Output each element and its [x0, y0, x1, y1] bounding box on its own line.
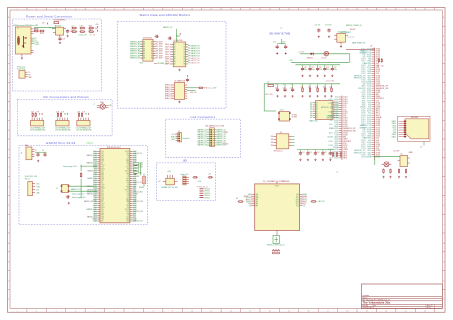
svg-text:IO14: IO14 [328, 149, 332, 151]
section box Led Connectors [166, 119, 241, 157]
svg-text:IO22: IO22 [126, 159, 129, 161]
svg-text:11: 11 [211, 9, 213, 11]
svg-text:SAME SPEED ON: SAME SPEED ON [352, 41, 366, 44]
svg-text:M: M [443, 243, 445, 245]
svg-text:VDD: VDD [101, 180, 104, 182]
svg-text:IO35: IO35 [361, 156, 365, 158]
ground below R26 [309, 95, 311, 97]
resistor R26 pull array [308, 84, 311, 93]
resistor R12 I2C pullup SDA [56, 111, 59, 117]
wire EN net vertical [81, 165, 82, 198]
section box Matrix Data and APA102 Buffers [118, 22, 227, 109]
svg-text:SDIO: SDIO [36, 186, 41, 188]
svg-text:IO32: IO32 [101, 157, 104, 159]
svg-text:(IO): (IO) [183, 160, 187, 163]
svg-text:VDD3P3: VDD3P3 [133, 176, 139, 178]
svg-text:1V8: 1V8 [36, 189, 39, 191]
IC U7 label [263, 180, 290, 184]
svg-text:IO12: IO12 [133, 207, 136, 209]
resistor R28 pull array [323, 84, 326, 93]
svg-text:VDD: VDD [101, 161, 104, 163]
svg-text:+ /LED: + /LED [212, 88, 218, 90]
wire 5V switch rail [298, 52, 350, 54]
svg-text:10: 10 [191, 311, 193, 313]
svg-text:B8: B8 [151, 58, 153, 60]
svg-text:IO14: IO14 [93, 161, 96, 163]
svg-text:JST-SH-SM04B-GND: JST-SH-SM04B-GND [55, 130, 71, 132]
I2C connector J4 [55, 118, 71, 132]
svg-text:CLK: CLK [126, 155, 129, 157]
svg-text:16: 16 [308, 9, 310, 11]
svg-text:MATRIX_R5: MATRIX_R5 [191, 54, 200, 57]
svg-text:D-: D- [35, 40, 37, 42]
svg-text:B6: B6 [184, 56, 186, 58]
svg-text:12: 12 [230, 311, 232, 313]
svg-text:IO35: IO35 [93, 195, 96, 197]
svg-text:GND2: GND2 [101, 207, 105, 209]
svg-text:100n: 100n [326, 69, 330, 71]
svg-text:4.7K: 4.7K [31, 111, 34, 113]
ground below R28 [324, 95, 326, 97]
svg-text:MATRIX_A7: MATRIX_A7 [130, 57, 140, 60]
svg-text:+3.3V_CONN: +3.3V_CONN [325, 80, 334, 82]
net label MATRIX_POWER_IN [346, 24, 362, 31]
svg-text:18: 18 [346, 311, 348, 313]
ground below R25 [301, 95, 303, 97]
svg-text:B9: B9 [184, 64, 186, 66]
power flag +3V3 at I2C connector J5 [85, 113, 89, 115]
resistor R6 pullup [71, 30, 77, 33]
ground below C24 [299, 159, 301, 161]
section title Matrix Data and APA102 Buffers [140, 13, 191, 17]
svg-text:C23: C23 [290, 87, 293, 89]
svg-text:F2: F2 [268, 82, 270, 84]
capacitor C10 buffer decoupling [155, 35, 159, 38]
svg-text:CLK: CLK [126, 213, 129, 215]
wire U7 bottom to antenna [276, 230, 278, 235]
svg-text:IN3: IN3 [271, 145, 274, 147]
svg-text:B2: B2 [151, 44, 153, 46]
buffer U5 APA102 level shifter [165, 80, 187, 100]
LED D6 activity [382, 162, 392, 167]
svg-text:D? LED: D? LED [223, 144, 229, 146]
svg-text:IO9: IO9 [94, 203, 97, 205]
svg-text:OSC1: OSC1 [280, 110, 284, 112]
svg-text:IO22: IO22 [126, 217, 129, 219]
svg-text:R1 22: R1 22 [34, 28, 38, 30]
wire 3V3 rail upper [289, 60, 350, 63]
svg-text:VDD: VDD [296, 194, 299, 196]
crystal X1 40MHz [56, 185, 81, 193]
svg-text:APA_DAT: APA_DAT [190, 91, 197, 94]
svg-text:14: 14 [269, 311, 271, 313]
net label stubs right of ESP32 [134, 163, 141, 176]
ground below C2 [67, 35, 69, 37]
svg-text:+5V: +5V [42, 22, 46, 24]
svg-text:IO32: IO32 [101, 215, 104, 217]
svg-text:IO4: IO4 [133, 217, 136, 219]
section box ESP32 Pico V3-02 [19, 146, 147, 225]
svg-text:GPIO2: GPIO2 [125, 209, 129, 211]
resistor R5 pullup [88, 25, 94, 29]
svg-text:SHLD: SHLD [35, 44, 40, 46]
resistor R20 EN pullup [80, 172, 82, 178]
svg-text:SENSOR_VN: SENSOR_VN [321, 107, 333, 109]
svg-text:GPIO36: GPIO36 [204, 195, 210, 197]
resistor R27 pull array [315, 84, 318, 93]
svg-text:IO0: IO0 [133, 215, 136, 217]
svg-text:Leyenda: Leyenda [363, 295, 370, 297]
resistor R1 series USB [33, 28, 39, 31]
svg-text:IO25: IO25 [93, 151, 96, 153]
svg-text:ESP32 Pico V3-02: ESP32 Pico V3-02 [46, 141, 75, 145]
ground below R38 [405, 176, 407, 178]
capacitor C16 [301, 67, 307, 71]
ground below C22 [284, 95, 286, 97]
svg-text:SD2: SD2 [329, 132, 333, 134]
capacitor C8 at ESP32 right [134, 164, 137, 168]
svg-text:DAT1: DAT1 [392, 135, 396, 138]
svg-text:IO25: IO25 [101, 190, 104, 192]
svg-text:GND2: GND2 [101, 168, 105, 170]
svg-text:7: 7 [133, 311, 134, 313]
resistor R15 I2C pullup SCL [81, 111, 85, 117]
svg-text:Same image 0.3m: Same image 0.3m [72, 193, 85, 195]
svg-text:IN0: IN0 [271, 136, 274, 138]
svg-text:GND: GND [101, 213, 104, 215]
svg-text:IO27: IO27 [101, 192, 104, 194]
svg-text:IO23: IO23 [93, 188, 96, 190]
section title ESP32 Pico V3-02 [46, 141, 93, 145]
svg-text:IO32: IO32 [133, 199, 136, 201]
svg-text:B4: B4 [184, 51, 186, 53]
svg-text:IO19: IO19 [133, 157, 136, 159]
svg-text:Led Connectors: Led Connectors [191, 115, 216, 119]
wire +5V to U4 [163, 26, 180, 42]
svg-text:AP2112K: AP2112K [55, 24, 61, 27]
section box Power and Serial Conversion [13, 19, 102, 91]
svg-text:PICO_PHY: PICO_PHY [265, 94, 273, 96]
svg-text:MATRIX_POWER_IN: MATRIX_POWER_IN [346, 24, 362, 27]
svg-text:20: 20 [385, 9, 387, 11]
section box IO [156, 163, 215, 201]
svg-text:A7: A7 [310, 116, 312, 119]
svg-text:F1 MF-MSMF050: F1 MF-MSMF050 [54, 20, 66, 22]
resistor R8 pullup [88, 30, 94, 33]
resistor R7 pullup [79, 30, 85, 33]
svg-text:C27: C27 [324, 152, 327, 154]
svg-text:IO25: IO25 [101, 209, 104, 211]
svg-text:9: 9 [172, 9, 173, 11]
svg-text:L: L [443, 224, 444, 226]
svg-text:B8: B8 [184, 61, 186, 63]
svg-text:MATRIX_5V: MATRIX_5V [163, 26, 173, 29]
svg-text:TX: TX [28, 72, 30, 74]
svg-text:B5: B5 [151, 51, 153, 53]
svg-text:J: J [8, 186, 9, 188]
svg-text:??: ?? [280, 28, 283, 30]
svg-text:32.768k: 32.768k [292, 117, 298, 119]
USB connector J1 [13, 24, 40, 57]
svg-text:GND: GND [140, 62, 144, 64]
power flag +3V3 at I2C connector J4 [64, 113, 68, 115]
svg-text:SD3: SD3 [126, 201, 129, 203]
net labels MATRIX_R1 group right of U4 [188, 44, 200, 57]
svg-text:PC0: PC0 [296, 196, 299, 198]
svg-text:VP: VP [127, 157, 129, 159]
svg-text:C17: C17 [311, 67, 314, 69]
section title I2C Connections and Pullups [43, 95, 89, 99]
svg-text:4.7K: 4.7K [61, 111, 64, 113]
svg-text:CLK: CLK [126, 194, 129, 196]
svg-text:VN: VN [127, 165, 129, 167]
svg-text:B1: B1 [184, 44, 186, 46]
svg-text:+3.3V: +3.3V [289, 60, 293, 62]
ground below C26 [314, 159, 316, 161]
svg-text:GPIO37: GPIO37 [204, 197, 210, 199]
ground below C23 [292, 95, 294, 97]
power flag +5 floating [336, 172, 338, 174]
svg-text:J12: J12 [370, 46, 373, 48]
svg-text:SD1: SD1 [126, 153, 129, 155]
connector J8 APA102 strip [171, 131, 189, 142]
ground below crystal [68, 202, 70, 204]
svg-text:I: I [443, 168, 444, 170]
svg-text:IO2: IO2 [330, 158, 333, 160]
svg-text:C26: C26 [317, 152, 320, 154]
svg-text:10K: 10K [300, 87, 303, 89]
svg-text:B4: B4 [151, 48, 153, 50]
svg-text:SD2: SD2 [133, 190, 136, 192]
resistor R3 pullup [71, 26, 77, 29]
wire SD aux rail [374, 156, 400, 165]
wire +5V bus from USB to regulator [34, 27, 56, 28]
svg-text:IO17: IO17 [93, 176, 96, 178]
svg-text:5V_TOLERANT_IO_EXPANDER: 5V_TOLERANT_IO_EXPANDER [263, 180, 290, 183]
svg-text:SD3: SD3 [126, 221, 129, 223]
svg-text:EN: EN [127, 188, 129, 190]
capacitor C5 decoupling [35, 150, 40, 157]
transistor Q1 [398, 154, 411, 167]
svg-text:IO22: IO22 [376, 156, 381, 158]
svg-text:SENSOR_VN: SENSOR_VN [87, 192, 97, 194]
svg-text:B2: B2 [184, 47, 186, 49]
svg-text:21: 21 [405, 9, 407, 11]
svg-text:IO35: IO35 [328, 111, 332, 113]
I2C connector J5 [76, 118, 92, 132]
svg-text:J: J [443, 186, 444, 188]
resistor R37 [398, 168, 399, 173]
svg-text:10K: 10K [329, 87, 332, 89]
svg-text:10K: 10K [308, 87, 311, 89]
svg-text:GPIO33: GPIO33 [204, 189, 210, 191]
svg-text:CMD: CMD [126, 199, 129, 201]
svg-text:10K: 10K [377, 65, 379, 67]
capacitor C13 bulk [282, 42, 287, 49]
comment text SD WHY IS THIS [269, 28, 290, 36]
svg-text:4.7K: 4.7K [77, 111, 80, 113]
svg-text:IO32: IO32 [101, 195, 104, 197]
svg-text:GPIO2: GPIO2 [125, 151, 129, 153]
svg-text:IO27: IO27 [334, 158, 338, 160]
svg-text:IO9: IO9 [330, 120, 333, 122]
resistor R36 [390, 168, 391, 173]
LED D1 power indicator [93, 102, 112, 109]
connector J6 debug header [21, 144, 35, 160]
svg-text:+5V_M: +5V_M [171, 134, 177, 136]
svg-text:IO19: IO19 [101, 205, 104, 207]
svg-text:15: 15 [288, 311, 290, 313]
resistor row R32-R34 below connector A [332, 152, 342, 157]
svg-text:VN: VN [127, 184, 129, 186]
svg-text:SWC: SWC [296, 201, 299, 203]
svg-text:SD1: SD1 [133, 188, 136, 190]
svg-text:Strip/Dots: Strip/Dots [183, 137, 190, 140]
resistor R11 I2C pullup SCL [35, 111, 39, 117]
svg-text:C22: C22 [283, 87, 286, 89]
svg-text:IO9: IO9 [133, 178, 136, 180]
svg-text:5: 5 [94, 311, 95, 313]
svg-text:BUF_8: BUF_8 [165, 64, 171, 66]
svg-text:PC4: PC4 [296, 203, 299, 205]
svg-text:VDD3 SDIO 1.8V: VDD3 SDIO 1.8V [25, 176, 38, 178]
svg-text:I2C-STEMMA-QT-4P: I2C-STEMMA-QT-4P [30, 126, 45, 129]
svg-text:+3.3: +3.3 [208, 174, 211, 176]
svg-text:C21: C21 [275, 87, 278, 89]
power flag +3V3 row1 [95, 24, 99, 28]
svg-text:IO23: IO23 [328, 103, 332, 105]
svg-text:VIN: VIN [109, 105, 112, 107]
svg-text:+Pull: +Pull [198, 181, 202, 183]
svg-text:IO19: IO19 [93, 182, 96, 184]
svg-text:CARD: CARD [409, 151, 414, 154]
connector J7 SDIO header [25, 176, 41, 195]
svg-text:IO10: IO10 [93, 205, 96, 207]
svg-text:+5V_SW: +5V_SW [298, 52, 305, 54]
svg-text:SEL J7: SEL J7 [25, 178, 30, 180]
svg-text:SD3: SD3 [343, 158, 348, 160]
svg-text:IN1: IN1 [271, 139, 274, 141]
svg-text:I2C Connections and Pullups: I2C Connections and Pullups [43, 95, 89, 99]
resistor R35 [383, 168, 384, 173]
svg-text:IO26: IO26 [328, 141, 332, 143]
svg-text:C12: C12 [273, 42, 276, 44]
svg-text:IO19: IO19 [101, 186, 104, 188]
svg-text:18: 18 [346, 9, 348, 11]
svg-text:IO19: IO19 [101, 166, 104, 168]
label pullup cluster [377, 65, 383, 67]
svg-text:IO21: IO21 [126, 186, 129, 188]
svg-text:13: 13 [249, 9, 251, 11]
wire crystal to ESP32 XTAL pins [69, 186, 98, 195]
svg-text:C15 10uF: C15 10uF [325, 24, 332, 26]
ground below C14 C15 [318, 35, 330, 37]
svg-text:+ANT_FB: +ANT_FB [318, 200, 325, 203]
fuse F1 [54, 20, 66, 24]
svg-text:SiT1532: SiT1532 [292, 115, 298, 117]
level shifter U10 74AHCT245 [309, 101, 339, 123]
capacitor C25 [306, 151, 312, 155]
svg-text:1: 1 [17, 311, 18, 313]
svg-text:C14 1uF: C14 1uF [315, 24, 321, 26]
resistor R10 I2C pullup SDA [31, 111, 34, 117]
svg-text:Serial Plug: Serial Plug [17, 69, 25, 71]
decoupling capacitor bank C16-C20 [296, 65, 341, 67]
svg-text:R40 0R: R40 0R [350, 29, 356, 31]
svg-text:GND2: GND2 [101, 188, 105, 190]
ground below C13 [285, 52, 287, 54]
capacitor C2 at regulator output [66, 29, 77, 33]
svg-text:VDD: VDD [101, 219, 104, 221]
svg-text:10: 10 [90, 34, 92, 36]
svg-text:PB0: PB0 [256, 194, 259, 196]
values row below pullups [79, 34, 96, 36]
capacitor bank C24-C28 lower [297, 150, 334, 152]
ground below C25 [307, 159, 309, 161]
svg-text:19: 19 [366, 311, 368, 313]
svg-text:U4 74HC245: U4 74HC245 [173, 40, 182, 42]
svg-text:VP: VP [127, 195, 129, 197]
ground below R29 [330, 95, 332, 97]
svg-text:MBR120: MBR120 [307, 58, 313, 60]
svg-text:I2C-STEMMA-QT-4P: I2C-STEMMA-QT-4P [76, 126, 91, 129]
svg-text:Matrix Data and APA102 Buffers: Matrix Data and APA102 Buffers [140, 13, 191, 17]
antenna ANT1 [267, 236, 285, 247]
svg-text:GPIO2: GPIO2 [125, 170, 129, 172]
svg-text:2: 2 [36, 311, 37, 313]
svg-text:GPIO34: GPIO34 [204, 191, 210, 193]
svg-text:4.7K: 4.7K [56, 111, 59, 113]
svg-text:92: 92 [93, 34, 95, 36]
capacitor C17 [308, 67, 314, 71]
svg-text:8: 8 [153, 311, 154, 313]
svg-text:EN: EN [127, 207, 129, 209]
resistor R21 APA102 series [198, 87, 204, 89]
svg-text:IO16: IO16 [93, 174, 96, 176]
svg-text:16: 16 [308, 311, 310, 313]
wire bus to connector J12B top [346, 48, 375, 50]
svg-text:D5 red: D5 red [322, 57, 327, 60]
svg-text:VDDIO: VDDIO [275, 186, 279, 188]
ground below C12 [276, 52, 278, 54]
svg-text:3: 3 [56, 9, 57, 11]
ground below U5 [178, 101, 180, 103]
svg-text:IO4: IO4 [101, 201, 103, 203]
svg-text:VP: VP [127, 176, 129, 178]
svg-text:VDD: VDD [36, 183, 40, 185]
svg-text:6: 6 [114, 9, 115, 11]
resistor R38 [405, 168, 406, 173]
power flag +5V above U4 [180, 33, 181, 35]
svg-text:17: 17 [327, 311, 329, 313]
svg-text:VDDA: VDDA [327, 136, 333, 139]
svg-text:ABM8-272-T3: ABM8-272-T3 [71, 188, 81, 191]
svg-text:C5: C5 [35, 150, 37, 152]
svg-text:100n: 100n [319, 69, 323, 71]
capacitor C28 [329, 151, 335, 155]
svg-text:J6: J6 [21, 153, 23, 155]
svg-text:SD0: SD0 [133, 186, 136, 188]
svg-text:SD1: SD1 [126, 172, 129, 174]
svg-text:74LVC1G_LS: 74LVC1G_LS [274, 150, 283, 152]
voltage regulator U2 AP2112K [52, 24, 66, 37]
ground below C19 [324, 75, 326, 77]
red labels right of U4 lower pins [188, 57, 199, 65]
svg-text:C6: C6 [42, 150, 44, 152]
wire J6 to caps [35, 151, 47, 153]
capacitor C14 at 3V3 regulator [315, 24, 321, 32]
svg-text:D3: D3 [236, 198, 238, 200]
